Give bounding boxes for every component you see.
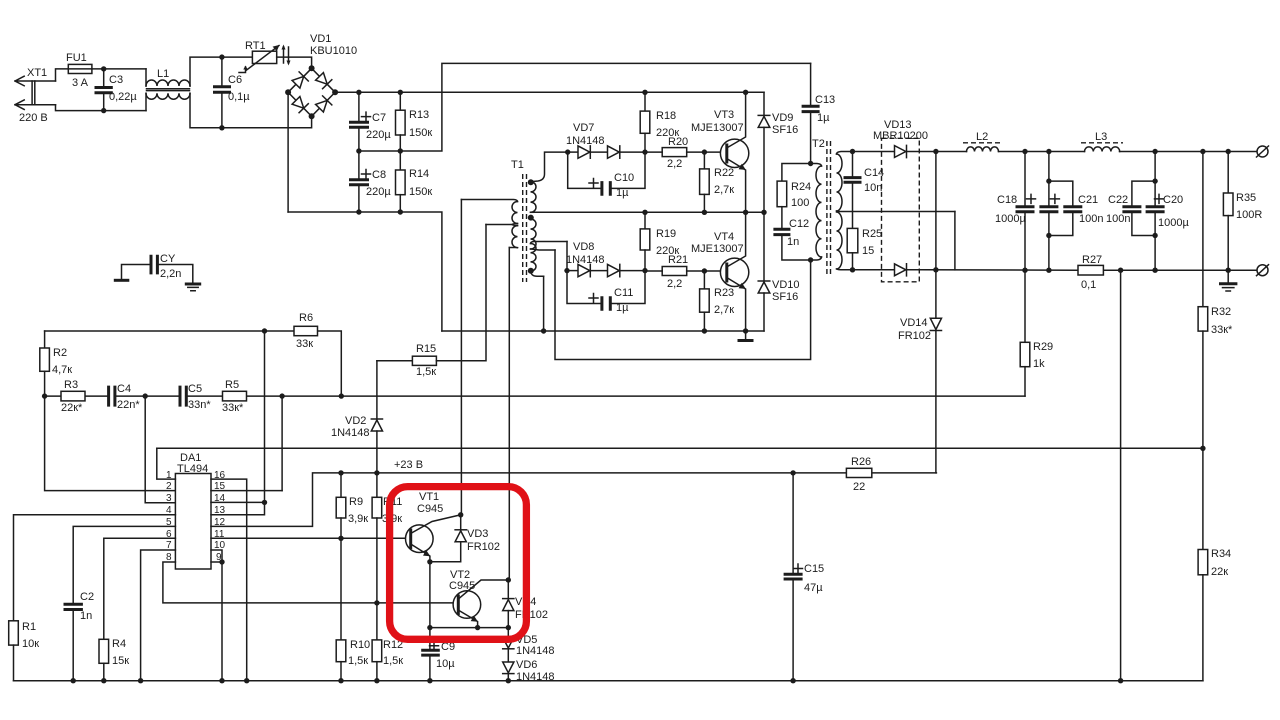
T2 secondary winding [837,152,853,155]
feedback bus y331 R2 to R6 [45,328,344,399]
dual diode VD13 MBR10200 dashed box [853,119,939,282]
diode VD7 1N4148 pair [565,122,648,158]
wire T1 drive return to midpoint rail [534,210,767,215]
resistor R13 150k [396,92,433,153]
svg-text:R13: R13 [409,109,429,121]
svg-text:1µ: 1µ [616,187,629,199]
svg-text:R24: R24 [791,181,811,193]
T1 windings left side [461,200,517,202]
svg-text:R18: R18 [656,110,676,122]
capacitor C19 1000u (second electrolytic) [1039,152,1059,271]
svg-text:1,5к: 1,5к [383,655,403,667]
mid bus C7/C8 junction to top bus [359,63,811,151]
svg-text:C945: C945 [417,503,443,515]
resistor R9 3,9k [336,473,368,538]
capacitor C11 1u [567,271,645,314]
connector XT1 plug arrows and bars [15,67,56,124]
IC DA1 TL494 [166,452,226,569]
wire plug bottom to C3 bottom [56,105,147,111]
capacitor C21 100n [1046,178,1103,238]
svg-text:C5: C5 [188,383,202,395]
svg-text:C11: C11 [614,287,633,299]
diode VD3 FR102 [430,512,500,562]
svg-text:1N4148: 1N4148 [331,427,370,439]
svg-text:C945: C945 [449,580,475,592]
svg-text:R1: R1 [22,621,36,633]
wire RT1 to bridge top [277,57,312,68]
svg-text:R3: R3 [64,379,78,391]
svg-text:33к*: 33к* [222,402,244,414]
svg-text:R21: R21 [668,254,688,266]
svg-text:VD1: VD1 [310,33,331,45]
svg-text:15к: 15к [112,655,129,667]
svg-text:C15: C15 [804,563,824,575]
capacitor C3 0,22u [95,66,138,113]
svg-text:+23 В: +23 В [394,459,423,471]
transistor VT1 C945 [406,491,461,565]
svg-text:R32: R32 [1211,306,1231,318]
wire pin5 to C2 [73,526,175,603]
svg-text:R10: R10 [350,639,370,651]
svg-text:10n: 10n [864,182,882,194]
output plus rail [936,149,1257,154]
svg-text:VD3: VD3 [467,528,488,540]
wire pin11 to VT1 base [211,536,411,541]
capacitor C12 1n [773,218,813,263]
svg-text:100R: 100R [1236,209,1262,221]
wire R5 node down to pin15 [281,396,283,491]
svg-text:1000µ: 1000µ [1158,217,1189,229]
svg-text:L2: L2 [976,131,988,143]
transformer T1 [461,152,567,282]
svg-text:1N4148: 1N4148 [566,254,605,266]
resistor R15 1,5k [377,225,486,379]
svg-text:1N4148: 1N4148 [516,645,555,657]
output terminal bottom [1257,265,1269,276]
svg-text:R27: R27 [1082,254,1102,266]
svg-text:2,2: 2,2 [667,158,682,170]
svg-text:XT1: XT1 [27,67,47,79]
primary minus bus [288,212,442,331]
svg-text:220µ: 220µ [366,129,391,141]
resistor R35 100R [1223,152,1262,271]
resistor R20 2,2 [645,136,727,170]
transformer T2 [811,138,955,277]
fuse FU1 3A [66,52,92,89]
wire pin12 to +23V rail [211,473,341,527]
wire pin15 to R5 node [211,490,282,492]
wire pin6 to R4 [104,538,176,639]
output return rail with R27 [919,268,1257,273]
svg-text:220 В: 220 В [19,112,48,124]
diode VD10 SF16 [758,212,799,331]
resistor R3 22k* [61,379,85,414]
wire pin4 to R1 [14,515,176,621]
resistor R21 2,2 [645,254,727,290]
diode VD5 1N4148 [503,628,555,662]
svg-text:MJE13007: MJE13007 [691,122,744,134]
resistor R23 2,7k [700,271,735,331]
svg-text:1,5к: 1,5к [348,655,368,667]
svg-text:1µ: 1µ [616,302,629,314]
feedback bus y448 [157,447,1203,449]
wire pin13 to junction [211,502,265,514]
svg-text:R34: R34 [1211,548,1231,560]
svg-text:C18: C18 [997,194,1017,206]
oscillator bus y396 [45,393,1025,398]
svg-text:2,7к: 2,7к [714,304,734,316]
svg-text:2,2: 2,2 [667,278,682,290]
svg-text:R20: R20 [668,136,688,148]
primary ground rail [442,328,764,333]
svg-text:VD7: VD7 [573,122,594,134]
resistor R4 15k [99,638,129,683]
svg-text:R15: R15 [416,343,436,355]
resistor R32 33k* [1198,152,1233,451]
wire C4/C5 node down to pin3 [145,396,175,503]
capacitor C7 220u [349,92,391,153]
capacitor C4 22n* [109,383,141,411]
diode VD8 1N4148 pair [564,241,647,277]
svg-text:FR102: FR102 [898,330,931,342]
svg-text:1n: 1n [787,236,799,248]
svg-text:C3: C3 [109,74,123,86]
svg-text:1µ: 1µ [817,112,830,124]
svg-text:KBU1010: KBU1010 [310,45,357,57]
svg-text:R19: R19 [656,228,676,240]
svg-text:SF16: SF16 [772,291,798,303]
wire T1 VT4-winding bottom to ground rail [543,276,545,331]
svg-text:MJE13007: MJE13007 [691,243,744,255]
T2 primary winding [811,164,822,167]
svg-text:3: 3 [166,493,172,504]
resistor R2 4,7k [40,331,72,399]
capacitor C5 33n* [180,383,211,411]
wire T1 feedback bottom to T2 primary [555,250,811,360]
T1 winding mid-right (feedback) [528,215,534,221]
resistor R19 220k [640,212,679,270]
svg-text:FR102: FR102 [467,541,500,553]
wire T1 VT4-winding top to VD8 anode [566,242,568,271]
svg-text:33к*: 33к* [1211,324,1233,336]
svg-text:33n*: 33n* [188,399,211,411]
svg-text:0,22µ: 0,22µ [109,91,137,103]
inductor L3 [1081,131,1123,152]
transistor VT3 MJE13007 [691,92,749,212]
wire pin8 to VT2 base [163,562,458,603]
svg-text:VD2: VD2 [345,415,366,427]
wire plug to fuse [56,69,69,81]
svg-text:R6: R6 [299,312,313,324]
svg-text:VT4: VT4 [714,231,734,243]
svg-text:1N4148: 1N4148 [516,671,555,683]
wire pin16 down [211,479,249,683]
capacitor C8 220u [349,151,391,215]
svg-text:220µ: 220µ [366,186,391,198]
capacitor C2 1n [64,591,95,683]
bridge rectifier VD1 KBU1010 [285,33,357,119]
svg-text:VD8: VD8 [573,241,594,253]
capacitor C22 100n [1106,178,1158,238]
diode VD4 FR102 [503,580,548,628]
wire T2 centre tap to output return [954,212,956,270]
output terminal top [1257,146,1269,157]
svg-text:C22: C22 [1108,194,1128,206]
resistor R22 2,7k [700,152,735,212]
svg-text:FU1: FU1 [66,52,87,64]
svg-text:1000µ: 1000µ [995,213,1026,225]
resistor R18 220k [640,92,679,152]
diode VD14 FR102 [898,270,942,473]
wire pin1 to feedback bus [157,448,176,479]
capacitor C6 0,1u [213,54,250,130]
svg-text:C10: C10 [614,172,634,184]
resistor R11 3,9k [372,473,402,606]
wire pin7 to ground rail [138,550,175,683]
svg-text:T1: T1 [511,159,524,171]
svg-text:CY: CY [160,253,176,265]
svg-text:0,1µ: 0,1µ [228,91,250,103]
wire bridge bottom to C6 bottom [222,116,312,128]
svg-text:150к: 150к [409,186,432,198]
svg-text:10к: 10к [22,638,39,650]
svg-text:SF16: SF16 [772,124,798,136]
svg-text:22n*: 22n* [117,399,140,411]
resistor R27 0,1 [1078,254,1103,291]
capacitor C10 1u [568,152,645,199]
svg-text:33к: 33к [296,338,313,350]
svg-text:VD14: VD14 [900,317,928,329]
+23V rail [338,459,936,476]
svg-text:MBR10200: MBR10200 [873,130,928,142]
wire pin10 pin9 to ground [211,550,225,683]
diode VD2 1N4148 [331,361,383,473]
red highlight box [390,487,527,640]
T1 winding bottom-right (VT4 drive) [531,242,568,244]
resistor R10 1,5k [336,538,370,683]
resistor R1 10k [9,621,40,681]
svg-text:RT1: RT1 [245,40,266,52]
wire T1 top-left winding to VT1 collector [460,200,462,515]
resistor R29 1k [1020,270,1053,396]
svg-text:3,9к: 3,9к [348,513,368,525]
svg-text:R5: R5 [225,379,239,391]
svg-text:FR102: FR102 [515,609,548,621]
svg-text:2,2n: 2,2n [160,268,181,280]
svg-text:3 A: 3 A [72,77,89,89]
capacitor C18 1000u [995,152,1036,271]
transistor VT2 C945 [449,569,511,628]
ground symbol at VT4 emitter [738,331,754,341]
svg-text:C8: C8 [372,169,386,181]
svg-text:22к: 22к [1211,566,1228,578]
svg-text:VD10: VD10 [772,279,800,291]
svg-text:L1: L1 [157,68,169,80]
wire bridge left to primary minus bus [287,92,289,212]
svg-text:R14: R14 [409,168,429,180]
svg-text:0,1: 0,1 [1081,279,1096,291]
svg-text:VD6: VD6 [516,659,537,671]
inductor L1 common-mode choke [146,57,222,128]
svg-text:4,7к: 4,7к [52,364,72,376]
wire T1 bottom-left winding to VT2 collector [508,248,510,580]
svg-text:2,7к: 2,7к [714,184,734,196]
resistor R6 33k [294,312,318,350]
svg-text:VD9: VD9 [772,112,793,124]
svg-text:1n: 1n [80,610,92,622]
svg-text:C4: C4 [117,383,131,395]
resistor R26 22 [846,456,871,493]
svg-text:C20: C20 [1163,194,1183,206]
earth ground at output [1219,270,1237,291]
T1 winding top-right (VT3 drive) [531,152,568,182]
svg-text:R26: R26 [851,456,871,468]
wire R6 bus to pins 13/14 [262,331,267,505]
resistor R12 1,5k [372,603,403,684]
+310V rail [335,90,764,95]
svg-text:R22: R22 [714,167,734,179]
thermistor RT1 [222,40,291,73]
resistor R5 33k* [222,379,247,414]
svg-text:R9: R9 [349,496,363,508]
svg-text:100n: 100n [1106,213,1130,225]
bottom ground rail [14,680,1203,682]
svg-text:150к: 150к [409,127,432,139]
wire fuse to C3 node [92,68,146,70]
svg-text:1k: 1k [1033,358,1045,370]
diode VD6 1N4148 [503,659,555,683]
svg-text:10µ: 10µ [436,658,455,670]
diode VD9 SF16 [758,92,798,212]
capacitor C15 47u [784,473,825,684]
capacitor C9 10u [421,628,455,684]
svg-text:R25: R25 [862,228,882,240]
capacitor C13 1u [802,63,836,166]
svg-text:R23: R23 [714,287,734,299]
svg-text:T2: T2 [812,138,825,150]
capacitor C20 1000u [1146,152,1190,271]
svg-text:VT3: VT3 [714,109,734,121]
svg-text:VT1: VT1 [419,491,439,503]
wire bus node down to pin2 [45,396,176,491]
svg-text:R4: R4 [112,638,126,650]
svg-text:1N4148: 1N4148 [566,135,605,147]
resistor R14 150k [396,151,433,215]
resistor R25 15 [847,228,882,272]
svg-text:L3: L3 [1095,131,1107,143]
svg-text:2: 2 [166,481,172,492]
svg-text:22к*: 22к* [61,402,83,414]
resistor R24 100 [777,164,811,229]
transistor VT4 MJE13007 [691,212,749,331]
svg-text:C12: C12 [789,218,809,230]
svg-text:47µ: 47µ [804,582,823,594]
svg-text:R29: R29 [1033,341,1053,353]
svg-text:C21: C21 [1078,194,1098,206]
resistor R34 22k [1118,448,1231,683]
svg-text:C13: C13 [815,94,835,106]
svg-text:C2: C2 [80,591,94,603]
wire pin14 to junction [211,501,265,503]
wire VT1 emitter down to emitter line [429,562,431,628]
capacitor C14 10n [844,149,885,229]
svg-text:C6: C6 [228,74,242,86]
svg-text:22: 22 [853,481,865,493]
svg-text:R35: R35 [1236,192,1256,204]
svg-text:R2: R2 [53,347,67,359]
inductor L2 [963,131,1001,152]
svg-text:1,5к: 1,5к [416,366,436,378]
emitter line [427,625,511,630]
svg-text:C7: C7 [372,112,386,124]
svg-text:100n: 100n [1079,213,1103,225]
svg-text:15: 15 [862,245,874,257]
svg-text:TL494: TL494 [177,463,208,475]
capacitor CY 2,2n with chassis grounds [114,253,201,291]
long sense wire from output return to bottom rail [1120,270,1122,681]
svg-text:100: 100 [791,197,809,209]
